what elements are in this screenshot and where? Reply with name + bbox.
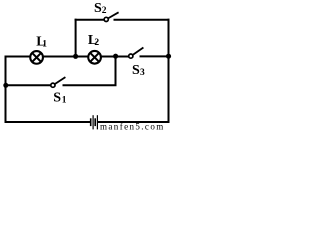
node B junction dot after L2 — [113, 54, 118, 59]
lamp L1 — [30, 51, 43, 64]
node: junction dot on left vertical for S1 branch — [3, 83, 8, 88]
wire: middle horizontal left segment to lamp L1 — [5, 56, 31, 58]
switch S1 — [51, 77, 66, 87]
svg-text:1: 1 — [62, 95, 67, 105]
svg-text:S: S — [53, 91, 61, 106]
lamp L2 — [88, 51, 101, 64]
wire: bottom horizontal right of battery — [98, 121, 170, 123]
wire: vertical from node A up to top wire — [75, 19, 77, 57]
wire: top horizontal left of S2 — [75, 19, 105, 21]
wire: top horizontal right of S2 — [114, 19, 170, 21]
svg-text:2: 2 — [94, 38, 99, 48]
wire: bottom horizontal left of battery — [5, 121, 91, 123]
node: junction dot middle wire to right vertical — [166, 54, 171, 59]
wire: middle horizontal between L1 and L2 — [43, 56, 88, 58]
svg-text:1: 1 — [42, 39, 47, 49]
wire: S1 branch left segment — [5, 84, 51, 86]
battery cells — [91, 115, 98, 129]
switch S3 — [129, 48, 144, 59]
svg-text:S: S — [132, 63, 140, 78]
node A junction dot between lamps — [73, 54, 78, 59]
switch S2 — [104, 12, 119, 21]
svg-text:3: 3 — [140, 68, 145, 78]
wire: right vertical (x=168.5) — [168, 19, 170, 123]
wire: middle horizontal right of S3 — [140, 55, 169, 57]
svg-text:manfen5.com: manfen5.com — [100, 122, 165, 132]
wire: vertical from node B down and corner left to S1 branch — [63, 56, 116, 85]
wire: left vertical (x=5.5, y 56.5..122) — [5, 56, 7, 124]
wire: middle horizontal from L2 to S3 — [101, 56, 129, 58]
svg-text:2: 2 — [102, 6, 107, 16]
